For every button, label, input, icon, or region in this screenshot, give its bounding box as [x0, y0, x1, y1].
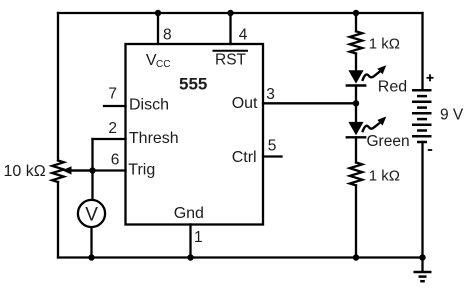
battery BT1 plate short 3: [417, 118, 427, 121]
svg-text:8: 8: [163, 26, 172, 43]
wire voltmeter to bottom rail: [90, 227, 92, 257]
wire R2 to bottom rail: [355, 185, 357, 257]
battery BT1 plate short 1: [417, 95, 427, 98]
svg-text:7: 7: [108, 86, 117, 103]
svg-text:RST: RST: [215, 52, 247, 69]
ground bar 2: [419, 275, 427, 278]
svg-text:5: 5: [268, 137, 277, 154]
junction dot voltmeter bottom: [88, 254, 94, 260]
svg-text:CC: CC: [156, 59, 170, 70]
svg-text:3: 3: [266, 86, 275, 103]
wire pin 8: [157, 13, 159, 44]
resistor R2 1k zigzag: [350, 163, 362, 186]
LED D2 cathode bar: [346, 136, 367, 138]
LED D1 cathode bar: [346, 84, 367, 86]
svg-text:Green: Green: [367, 133, 410, 150]
LED D1 red triangle: [348, 70, 363, 83]
wire green LED to R2: [355, 137, 357, 162]
svg-text:Gnd: Gnd: [174, 205, 204, 222]
wire ground stem: [421, 258, 423, 272]
svg-text:4: 4: [239, 26, 248, 43]
svg-text:555: 555: [179, 75, 207, 94]
svg-text:1 kΩ: 1 kΩ: [369, 35, 400, 52]
svg-text:Trig: Trig: [128, 162, 155, 179]
junction dot pin4 top: [227, 10, 233, 16]
ground bar 1: [414, 271, 432, 274]
junction dot pin8 top: [155, 10, 161, 16]
Vcc pin name: [146, 52, 171, 70]
wire out pin3: [263, 102, 356, 104]
battery minus sign: [428, 149, 432, 151]
svg-text:Thresh: Thresh: [129, 130, 179, 147]
potentiometer wiper shaft: [70, 169, 93, 171]
svg-text:Out: Out: [232, 95, 258, 112]
svg-text:9 V: 9 V: [440, 107, 464, 124]
svg-text:Disch: Disch: [129, 97, 169, 114]
wire left rail upper: [57, 13, 59, 161]
wire R1 to red LED: [355, 54, 357, 71]
svg-text:Red: Red: [378, 78, 407, 95]
wire thresh-trig connector: [91, 139, 93, 171]
svg-text:1: 1: [194, 229, 203, 246]
RST pin name with overline: [213, 51, 249, 69]
svg-text:V: V: [85, 204, 98, 225]
battery plus sign: [427, 74, 434, 81]
wire out node to green LED: [355, 103, 357, 122]
battery BT1 plate long 5: [412, 135, 432, 138]
potentiometer wiper arrowhead: [62, 166, 71, 174]
wire pin 5 ctrl stub: [263, 155, 282, 157]
svg-text:1 kΩ: 1 kΩ: [369, 167, 400, 184]
ground bar 3: [420, 280, 425, 283]
wire LED branch top: [355, 13, 357, 31]
potentiometer R3 10k zigzag: [52, 161, 64, 183]
IC U1 555 timer body: [126, 44, 264, 225]
battery BT1 plate long 1: [412, 89, 432, 92]
svg-text:10 kΩ: 10 kΩ: [4, 163, 46, 180]
junction dot trig node: [89, 167, 95, 173]
wire bottom rail: [58, 256, 423, 258]
battery BT1 plate long 4: [412, 123, 432, 126]
wire pin 1 gnd: [189, 225, 191, 258]
wire pin 7 stub: [104, 105, 126, 107]
wire battery bottom: [421, 142, 423, 258]
wire left rail lower: [57, 182, 59, 258]
wire pin 4: [229, 13, 231, 44]
LED D2 emission arrow: [362, 117, 386, 133]
battery BT1 plate short 4: [417, 129, 427, 132]
wire trig node to voltmeter: [91, 171, 93, 200]
wire battery top: [421, 13, 423, 90]
battery BT1 plate short 5: [417, 141, 427, 144]
wire red LED to out node: [355, 86, 357, 104]
wire top rail: [58, 12, 423, 14]
resistor R1 1k zigzag: [350, 31, 362, 53]
voltmeter M1 circle: [78, 200, 105, 227]
svg-text:2: 2: [108, 120, 117, 137]
junction dot gnd pin bottom: [187, 254, 193, 260]
wire pin 2 stub: [93, 138, 126, 140]
junction dot LED branch top: [353, 10, 359, 16]
LED D1 emission arrow: [362, 65, 386, 81]
junction dot battery bottom: [419, 254, 425, 260]
svg-text:6: 6: [111, 151, 120, 168]
battery BT1 plate short 2: [417, 106, 427, 109]
junction dot out node: [353, 100, 359, 106]
battery BT1 plate long 2: [412, 100, 432, 103]
junction dot LED branch bottom: [353, 254, 359, 260]
battery BT1 plate long 3: [412, 112, 432, 115]
LED D2 green triangle: [348, 122, 363, 135]
svg-text:Ctrl: Ctrl: [232, 149, 257, 166]
wire pin 6 trig: [70, 169, 126, 171]
